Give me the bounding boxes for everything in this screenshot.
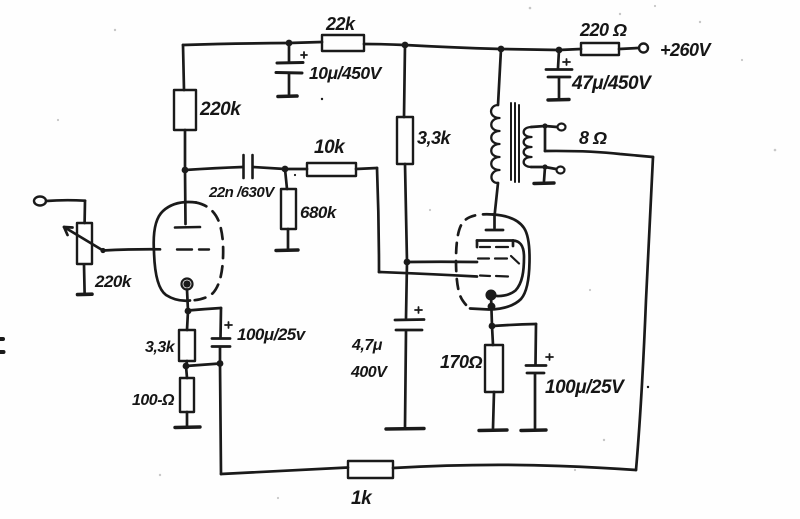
svg-text:1k: 1k xyxy=(351,488,373,509)
svg-text:+260V: +260V xyxy=(660,40,713,60)
svg-text:3,3k: 3,3k xyxy=(145,339,176,356)
svg-text:680k: 680k xyxy=(300,203,338,222)
svg-text:170Ω: 170Ω xyxy=(440,352,483,372)
svg-text:4,7μ: 4,7μ xyxy=(351,337,383,354)
svg-text:400V: 400V xyxy=(350,364,388,381)
svg-text:3,3k: 3,3k xyxy=(417,128,452,148)
svg-text:220k: 220k xyxy=(199,99,242,120)
svg-text:100μ/25v: 100μ/25v xyxy=(237,325,307,344)
svg-text:10μ/450V: 10μ/450V xyxy=(309,63,383,83)
svg-text:10k: 10k xyxy=(314,137,346,158)
svg-text:220 Ω: 220 Ω xyxy=(579,20,627,40)
svg-text:47μ/450V: 47μ/450V xyxy=(571,73,652,94)
svg-text:220k: 220k xyxy=(94,272,133,291)
svg-text:22n /630V: 22n /630V xyxy=(208,184,276,201)
svg-text:100-Ω: 100-Ω xyxy=(132,392,175,409)
svg-text:22k: 22k xyxy=(325,14,356,34)
svg-text:100μ/25V: 100μ/25V xyxy=(545,377,625,398)
svg-text:8 Ω: 8 Ω xyxy=(579,128,607,148)
